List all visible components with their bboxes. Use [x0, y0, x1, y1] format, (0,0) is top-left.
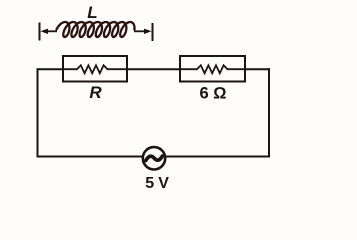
- resistor R box: [63, 56, 127, 82]
- wire left vertical: [37, 68, 39, 157]
- wire bottom: [37, 156, 271, 158]
- inductor L (coil scribble): [57, 22, 135, 37]
- dimension arrow left: [41, 29, 58, 34]
- resistor 6ohm zigzag: [180, 65, 245, 73]
- svg-text:L: L: [87, 3, 97, 22]
- dimension marker right bar: [152, 23, 154, 41]
- dimension marker left bar: [39, 23, 41, 41]
- resistor R zigzag: [63, 65, 127, 73]
- AC source circle: [143, 147, 165, 169]
- svg-text:6 Ω: 6 Ω: [200, 85, 227, 103]
- dimension arrow right: [134, 29, 152, 34]
- AC source tilde: [146, 156, 163, 160]
- resistor 6ohm box: [180, 56, 245, 82]
- svg-text:R: R: [89, 83, 102, 102]
- wire top-right segment: [245, 68, 270, 70]
- wire right vertical: [268, 68, 270, 157]
- svg-text:5 V: 5 V: [145, 175, 169, 189]
- wire between resistor boxes: [127, 68, 180, 70]
- wire top-left segment: [38, 68, 64, 70]
